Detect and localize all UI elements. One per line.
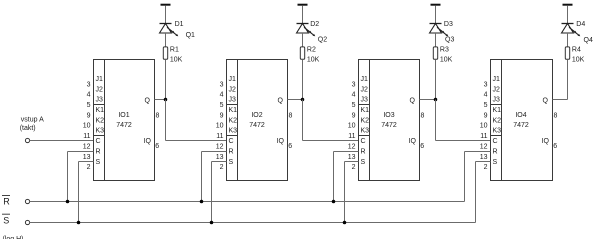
svg-text:J3: J3 xyxy=(229,97,237,104)
svg-text:10: 10 xyxy=(480,123,488,130)
svg-text:Q1: Q1 xyxy=(186,32,195,39)
LED D4 xyxy=(562,24,581,37)
IO4 pin 6 (IQ) xyxy=(542,138,558,150)
svg-text:11: 11 xyxy=(216,133,223,140)
LED D2 xyxy=(297,24,316,37)
wire node Q1 down to C of IO2 xyxy=(166,100,227,141)
label 10K value R1 xyxy=(170,57,183,64)
svg-text:C: C xyxy=(229,138,234,145)
label Q3 output xyxy=(445,37,454,44)
IO1 pin 13 (R) xyxy=(83,148,101,160)
svg-text:Q2: Q2 xyxy=(318,36,327,43)
svg-text:J3: J3 xyxy=(96,97,104,104)
svg-text:R3: R3 xyxy=(440,46,449,53)
svg-text:J2: J2 xyxy=(229,86,237,93)
LED D1 xyxy=(160,24,179,37)
IO3 pin 13 (R) xyxy=(348,148,366,160)
IO2 pin 2 (S) xyxy=(220,159,234,171)
svg-text:K3: K3 xyxy=(229,128,238,135)
resistor R3 xyxy=(433,47,437,59)
svg-text:Q3: Q3 xyxy=(445,37,454,44)
wire resistor R1 to node Q1 xyxy=(165,59,167,99)
wire resistor R3 to node Q3 xyxy=(435,59,437,99)
svg-text:R4: R4 xyxy=(572,46,581,53)
junction S bus stage 1 xyxy=(77,221,81,225)
svg-text:S: S xyxy=(229,159,234,166)
label D2 xyxy=(310,21,319,28)
svg-text:8: 8 xyxy=(289,112,293,119)
svg-text:J3: J3 xyxy=(361,97,369,104)
svg-text:6: 6 xyxy=(420,143,424,150)
power VCC bar stage 1 xyxy=(161,4,171,6)
label S-bar xyxy=(2,214,10,225)
svg-text:10: 10 xyxy=(348,123,356,130)
junction R bus stage 1 xyxy=(66,200,70,204)
label Q4 output xyxy=(584,37,593,44)
svg-text:J2: J2 xyxy=(361,86,369,93)
label (takt) xyxy=(20,125,36,132)
svg-text:K2: K2 xyxy=(96,117,105,124)
svg-text:R: R xyxy=(361,148,366,155)
svg-text:13: 13 xyxy=(216,154,224,161)
label Q1 output xyxy=(186,32,195,39)
svg-text:13: 13 xyxy=(480,154,488,161)
IO1 pin 10 (K2) xyxy=(83,117,104,129)
svg-text:Q: Q xyxy=(278,97,284,104)
svg-text:9: 9 xyxy=(87,112,91,119)
svg-text:D1: D1 xyxy=(175,21,184,28)
svg-text:2: 2 xyxy=(87,164,91,171)
svg-text:3: 3 xyxy=(87,81,91,88)
svg-text:9: 9 xyxy=(220,112,224,119)
svg-text:C: C xyxy=(361,138,366,145)
svg-text:K2: K2 xyxy=(229,117,238,124)
junction node Q1 xyxy=(164,98,168,102)
label 10K value R2 xyxy=(307,57,320,64)
svg-text:R: R xyxy=(229,148,234,155)
svg-text:J3: J3 xyxy=(493,97,501,104)
svg-text:IQ: IQ xyxy=(277,138,285,145)
IO4 pin 10 (K2) xyxy=(480,117,501,129)
label R4 xyxy=(572,46,581,53)
wire S bus to S pin IO1 xyxy=(79,162,94,223)
junction S bus stage 3 xyxy=(343,221,347,225)
label R2 xyxy=(307,46,316,53)
wire Q output IO1 to node Q1 xyxy=(155,99,166,101)
IO2 pin 12 (C) xyxy=(216,138,234,150)
wire Q output IO3 to node Q3 xyxy=(420,99,436,101)
wire resistor R2 to node Q2 xyxy=(302,59,304,99)
svg-text:12: 12 xyxy=(348,143,356,150)
svg-text:8: 8 xyxy=(156,112,160,119)
IO1 pin 11 (K3) xyxy=(83,128,104,140)
IC IO2 (7472 JK flip-flop) xyxy=(227,60,288,181)
svg-text:J2: J2 xyxy=(96,86,104,93)
wire node Q3 down to C of IO4 xyxy=(436,100,491,141)
wire VCC to LED D2 xyxy=(302,6,304,24)
svg-text:2: 2 xyxy=(220,164,224,171)
IO1 pin 4 (J2) xyxy=(87,86,103,98)
IO4 pin 13 (R) xyxy=(480,148,498,160)
svg-text:K2: K2 xyxy=(361,117,370,124)
svg-text:4: 4 xyxy=(484,92,488,99)
IO2 pin 6 (IQ) xyxy=(277,138,293,150)
IC IO4 (7472 JK flip-flop) xyxy=(491,60,553,181)
IO3 pin 11 (K3) xyxy=(348,128,369,140)
junction R bus stage 2 xyxy=(200,200,204,204)
svg-text:Q: Q xyxy=(543,97,549,104)
wire S bus xyxy=(30,222,476,224)
svg-text:8: 8 xyxy=(554,112,558,119)
label D1 xyxy=(175,21,184,28)
svg-text:K1: K1 xyxy=(361,107,370,114)
input terminal S-bar xyxy=(25,220,29,224)
svg-text:2: 2 xyxy=(484,164,488,171)
svg-text:IO4: IO4 xyxy=(515,112,526,119)
IC IO1 (7472 JK flip-flop) xyxy=(94,60,155,181)
IO3 pin 4 (J2) xyxy=(352,86,368,98)
svg-text:5: 5 xyxy=(484,102,488,109)
IO4 pin 5 (J3) xyxy=(484,97,500,109)
resistor R1 xyxy=(163,47,167,59)
label (log H) note xyxy=(3,236,24,240)
junction node Q2 xyxy=(301,98,305,102)
svg-text:J2: J2 xyxy=(493,86,501,93)
svg-text:12: 12 xyxy=(480,143,488,150)
junction R bus stage 3 xyxy=(332,200,336,204)
input terminal R-bar xyxy=(25,199,29,203)
IO1 pin 3 (J1) xyxy=(87,76,103,88)
label D4 xyxy=(576,21,585,28)
svg-text:J1: J1 xyxy=(361,76,369,83)
svg-text:5: 5 xyxy=(220,102,224,109)
LED D3 xyxy=(430,24,449,37)
wire LED D4 to resistor R4 xyxy=(567,33,569,47)
svg-text:12: 12 xyxy=(83,143,91,150)
svg-text:D4: D4 xyxy=(576,21,585,28)
IO1 pin 9 (K1) xyxy=(87,107,105,119)
svg-text:6: 6 xyxy=(288,143,292,150)
wire R bus to R pin IO2 xyxy=(202,152,227,202)
junction node Q3 xyxy=(434,98,438,102)
IO4 pin 3 (J1) xyxy=(484,76,500,88)
svg-text:S: S xyxy=(361,159,366,166)
svg-text:7472: 7472 xyxy=(513,122,529,129)
svg-text:4: 4 xyxy=(87,92,91,99)
wire node Q2 down to C of IO3 xyxy=(303,100,359,141)
svg-text:7472: 7472 xyxy=(116,122,132,129)
IO1 pin 5 (J3) xyxy=(87,97,103,109)
label IO4 xyxy=(515,112,526,119)
wire VCC to LED D3 xyxy=(435,6,437,24)
svg-text:S: S xyxy=(493,159,498,166)
svg-text:5: 5 xyxy=(352,102,356,109)
svg-text:10K: 10K xyxy=(170,57,183,64)
svg-text:J1: J1 xyxy=(229,76,237,83)
wire R bus to R pin IO3 xyxy=(334,152,359,202)
svg-text:R1: R1 xyxy=(170,46,179,53)
IO1 pin 12 (C) xyxy=(83,138,101,150)
IO4 pin 4 (J2) xyxy=(484,86,500,98)
wire resistor R4 to node Q4 xyxy=(567,59,569,99)
svg-text:7472: 7472 xyxy=(249,122,265,129)
svg-text:4: 4 xyxy=(220,92,224,99)
svg-text:3: 3 xyxy=(220,81,224,88)
svg-text:9: 9 xyxy=(484,112,488,119)
svg-text:K1: K1 xyxy=(493,107,502,114)
label Q2 output xyxy=(318,36,327,43)
wire R bus to R pin IO4 xyxy=(465,152,491,202)
svg-text:10K: 10K xyxy=(307,57,320,64)
svg-text:D3: D3 xyxy=(444,21,453,28)
IO3 pin 5 (J3) xyxy=(352,97,368,109)
svg-text:C: C xyxy=(493,138,498,145)
svg-text:8: 8 xyxy=(421,112,425,119)
svg-text:IQ: IQ xyxy=(144,138,152,145)
IC IO3 (7472 JK flip-flop) xyxy=(359,60,420,181)
IO2 pin 4 (J2) xyxy=(220,86,236,98)
label 7472 IO2 xyxy=(249,122,265,129)
svg-text:Q4: Q4 xyxy=(584,37,593,44)
label 7472 IO1 xyxy=(116,122,132,129)
label R-bar xyxy=(2,196,10,207)
IO2 pin 5 (J3) xyxy=(220,97,236,109)
power VCC bar stage 2 xyxy=(298,4,308,6)
IO3 pin 2 (S) xyxy=(352,159,366,171)
svg-text:R: R xyxy=(493,148,498,155)
wire LED D1 to resistor R1 xyxy=(165,33,167,47)
IO4 pin 12 (C) xyxy=(480,138,498,150)
svg-text:3: 3 xyxy=(352,81,356,88)
svg-text:K3: K3 xyxy=(96,128,105,135)
svg-text:IQ: IQ xyxy=(409,138,417,145)
svg-text:J1: J1 xyxy=(493,76,501,83)
IO3 pin 12 (C) xyxy=(348,138,366,150)
svg-text:13: 13 xyxy=(83,154,91,161)
svg-text:IO3: IO3 xyxy=(383,112,394,119)
label R1 xyxy=(170,46,179,53)
svg-text:10K: 10K xyxy=(440,57,453,64)
wire S bus to S pin IO4 xyxy=(476,162,491,223)
input terminal vstup A (takt) xyxy=(25,138,29,142)
label D3 xyxy=(444,21,453,28)
svg-text:R: R xyxy=(3,197,10,207)
power VCC bar stage 4 xyxy=(563,4,573,6)
svg-text:9: 9 xyxy=(352,112,356,119)
svg-text:11: 11 xyxy=(83,133,90,140)
svg-text:10: 10 xyxy=(83,123,91,130)
wire LED D3 to resistor R3 xyxy=(435,33,437,47)
svg-text:3: 3 xyxy=(484,81,488,88)
label 7472 IO4 xyxy=(513,122,529,129)
IO4 pin 11 (K3) xyxy=(480,128,501,140)
label 10K value R4 xyxy=(572,57,585,64)
IO3 pin 9 (K1) xyxy=(352,107,370,119)
label IO2 xyxy=(251,112,262,119)
IO3 pin 6 (IQ) xyxy=(409,138,425,150)
label 7472 IO3 xyxy=(381,122,397,129)
IO1 pin 6 (IQ) xyxy=(144,138,160,150)
svg-text:IO1: IO1 xyxy=(118,112,129,119)
wire Q output IO2 to node Q2 xyxy=(288,99,303,101)
label R3 xyxy=(440,46,449,53)
junction S bus stage 2 xyxy=(210,221,214,225)
svg-text:R: R xyxy=(96,148,101,155)
IO2 pin 10 (K2) xyxy=(216,117,237,129)
resistor R4 xyxy=(565,47,569,59)
wire vstup A to C pin IO1 xyxy=(30,140,94,142)
wire VCC to LED D1 xyxy=(165,6,167,24)
label vstup A xyxy=(21,116,44,123)
IO3 pin 8 (Q) xyxy=(410,97,425,119)
IO3 pin 10 (K2) xyxy=(348,117,369,129)
svg-text:K2: K2 xyxy=(493,117,502,124)
label 10K value R3 xyxy=(440,57,453,64)
svg-text:Q: Q xyxy=(410,97,416,104)
svg-text:2: 2 xyxy=(352,164,356,171)
svg-text:5: 5 xyxy=(87,102,91,109)
svg-text:J1: J1 xyxy=(96,76,104,83)
wire S bus to S pin IO3 xyxy=(345,162,359,223)
svg-text:IO2: IO2 xyxy=(251,112,262,119)
wire R bus xyxy=(30,201,465,203)
wire Q output IO4 to node Q4 xyxy=(553,99,568,101)
IO2 pin 8 (Q) xyxy=(278,97,293,119)
svg-text:7472: 7472 xyxy=(381,122,397,129)
svg-text:S: S xyxy=(96,159,101,166)
svg-text:vstup A: vstup A xyxy=(21,116,44,123)
label IO3 xyxy=(383,112,394,119)
svg-text:Q: Q xyxy=(145,97,151,104)
svg-text:D2: D2 xyxy=(310,21,319,28)
svg-text:K1: K1 xyxy=(229,107,238,114)
IO2 pin 3 (J1) xyxy=(220,76,236,88)
svg-text:6: 6 xyxy=(155,143,159,150)
svg-text:10K: 10K xyxy=(572,57,585,64)
svg-text:IQ: IQ xyxy=(542,138,550,145)
svg-text:R2: R2 xyxy=(307,46,316,53)
IO4 pin 9 (K1) xyxy=(484,107,502,119)
wire S bus to S pin IO2 xyxy=(212,162,227,223)
label IO1 xyxy=(118,112,129,119)
IO3 pin 3 (J1) xyxy=(352,76,368,88)
IO4 pin 8 (Q) xyxy=(543,97,558,119)
wire LED D2 to resistor R2 xyxy=(302,33,304,47)
IO4 pin 2 (S) xyxy=(484,159,498,171)
svg-text:4: 4 xyxy=(352,92,356,99)
IO1 pin 2 (S) xyxy=(87,159,101,171)
svg-text:(takt): (takt) xyxy=(20,125,36,132)
svg-text:10: 10 xyxy=(216,123,224,130)
wire R bus to R pin IO1 xyxy=(68,152,94,202)
IO2 pin 9 (K1) xyxy=(220,107,238,119)
svg-text:C: C xyxy=(96,138,101,145)
svg-text:K3: K3 xyxy=(361,128,370,135)
wire VCC to LED D4 xyxy=(567,6,569,24)
svg-text:S: S xyxy=(3,215,9,225)
power VCC bar stage 3 xyxy=(431,4,441,6)
svg-text:11: 11 xyxy=(348,133,355,140)
IO1 pin 8 (Q) xyxy=(145,97,160,119)
svg-text:6: 6 xyxy=(553,143,557,150)
svg-text:12: 12 xyxy=(216,143,224,150)
svg-text:11: 11 xyxy=(480,133,487,140)
svg-text:(log H): (log H) xyxy=(3,236,24,239)
svg-text:K1: K1 xyxy=(96,107,105,114)
IO2 pin 13 (R) xyxy=(216,148,234,160)
svg-text:K3: K3 xyxy=(493,128,502,135)
svg-text:13: 13 xyxy=(348,154,356,161)
resistor R2 xyxy=(300,47,304,59)
IO2 pin 11 (K3) xyxy=(216,128,237,140)
